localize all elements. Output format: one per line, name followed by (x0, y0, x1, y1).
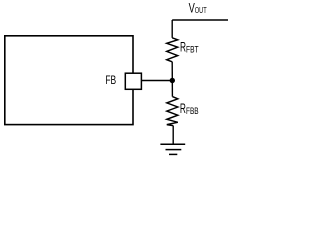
svg-text:FBT: FBT (186, 44, 199, 55)
ground (160, 144, 185, 154)
IC block U1 (5, 36, 133, 125)
pin box FB (125, 73, 141, 89)
resistor RFBB (167, 97, 178, 126)
label RFBB (180, 101, 199, 117)
wire VOUT rail to RFBT (171, 20, 173, 38)
resistor RFBT (167, 38, 178, 62)
net label VOUT (189, 1, 208, 16)
wire VOUT rail (172, 19, 228, 21)
wire FB pin to feedback node (141, 80, 172, 82)
svg-text:FBB: FBB (186, 106, 199, 117)
svg-text:OUT: OUT (195, 5, 207, 15)
wire RFBT to node and node to RFBB (171, 62, 173, 97)
label RFBT (180, 40, 199, 56)
wire RFBB to ground (172, 126, 174, 145)
node feedback junction (170, 78, 175, 83)
svg-text:FB: FB (105, 73, 116, 87)
